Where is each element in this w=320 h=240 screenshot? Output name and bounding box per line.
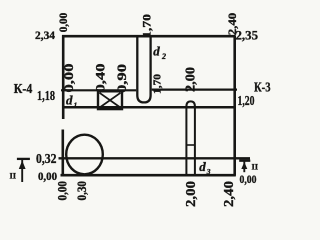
section mark II right: bar xyxy=(239,160,250,162)
circle opening xyxy=(66,135,103,175)
section mark II left: arrowhead xyxy=(19,161,26,170)
slot d3 inner tick xyxy=(186,144,195,146)
svg-text:2,00: 2,00 xyxy=(183,67,198,92)
crossed box diagonal 2 xyxy=(100,93,121,108)
svg-text:d: d xyxy=(153,43,160,58)
svg-text:2,00: 2,00 xyxy=(184,181,199,207)
svg-text:0,00: 0,00 xyxy=(38,169,57,183)
crossed box diagonal 1 xyxy=(100,93,121,108)
slot d2 outline xyxy=(137,36,150,102)
svg-text:1,18: 1,18 xyxy=(37,89,55,104)
svg-text:1,20: 1,20 xyxy=(238,93,255,108)
svg-text:0,90: 0,90 xyxy=(114,64,129,93)
outer contour left edge upper segment xyxy=(62,35,65,119)
svg-text:2: 2 xyxy=(161,52,166,61)
svg-text:1: 1 xyxy=(74,100,78,109)
svg-text:2,40: 2,40 xyxy=(222,181,237,207)
axis line K level top left segment xyxy=(61,89,136,91)
outer contour right edge xyxy=(233,35,236,175)
svg-text:0,32: 0,32 xyxy=(36,152,57,167)
axis line K level bottom xyxy=(62,106,235,109)
svg-text:0,00: 0,00 xyxy=(240,172,257,186)
svg-text:0,00: 0,00 xyxy=(58,13,70,33)
section mark II right: stem xyxy=(243,161,245,173)
svg-text:2,35: 2,35 xyxy=(236,27,259,42)
svg-text:3: 3 xyxy=(206,167,211,176)
axis line K level top right segment xyxy=(152,88,237,90)
svg-text:2,34: 2,34 xyxy=(35,28,55,42)
crossed box at d1 xyxy=(98,91,122,109)
section mark II left: stem xyxy=(21,159,23,182)
slot d3 outline xyxy=(186,101,195,176)
svg-text:0,00: 0,00 xyxy=(61,64,76,93)
section line II-II at 0,32 xyxy=(59,157,251,159)
svg-text:1,70: 1,70 xyxy=(152,73,164,94)
svg-text:0,40: 0,40 xyxy=(93,64,108,93)
outer contour top edge xyxy=(62,35,235,38)
svg-text:d: d xyxy=(66,92,73,107)
section mark II left: bar xyxy=(17,158,30,160)
svg-text:К-3: К-3 xyxy=(254,81,271,96)
svg-text:0,30: 0,30 xyxy=(75,181,89,201)
outer contour bottom edge xyxy=(61,174,236,177)
svg-text:0,00: 0,00 xyxy=(56,181,70,201)
svg-text:II: II xyxy=(10,171,17,181)
svg-text:II: II xyxy=(252,162,259,172)
outer contour left edge lower segment xyxy=(61,130,64,177)
section mark II right: arrowhead xyxy=(241,162,247,169)
svg-text:1,70: 1,70 xyxy=(142,14,154,38)
svg-text:d: d xyxy=(199,159,206,174)
svg-text:К-4: К-4 xyxy=(14,82,33,97)
